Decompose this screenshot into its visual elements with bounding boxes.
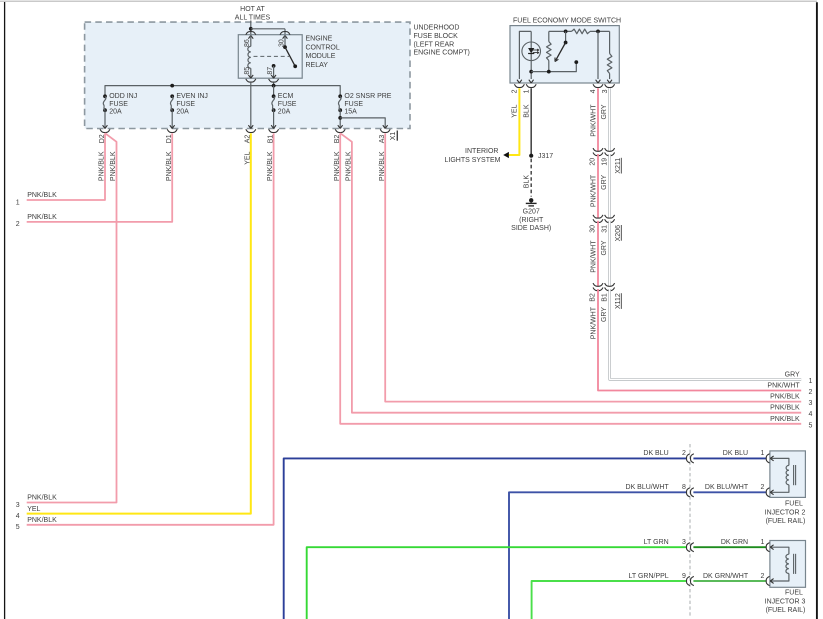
label 3	[16, 502, 20, 509]
svg-text:DK GRN/WHT: DK GRN/WHT	[703, 573, 749, 580]
svg-text:(LEFT REAR: (LEFT REAR	[414, 41, 455, 48]
label PNK/BLK wire3	[27, 495, 57, 502]
pin label 87	[267, 67, 274, 75]
pin label A2	[245, 135, 252, 144]
resistor R1 (switch pullup)	[547, 31, 552, 71]
connector X211 pin20	[593, 148, 603, 156]
relay contact 87 stub	[272, 64, 276, 78]
fuel economy mode switch box	[510, 26, 619, 83]
node feed junction	[249, 27, 253, 31]
label 4	[16, 513, 20, 520]
svg-text:FUSE: FUSE	[278, 101, 297, 108]
svg-text:B2: B2	[590, 293, 597, 302]
label right 3	[809, 400, 813, 407]
fuse ODD INJ 20A	[103, 94, 107, 128]
svg-text:3: 3	[682, 539, 686, 546]
injector3 pin1 terminal	[766, 543, 773, 552]
svg-text:ECM: ECM	[278, 93, 294, 100]
svg-text:DK BLU: DK BLU	[723, 450, 748, 457]
svg-text:INTERIOR: INTERIOR	[465, 148, 498, 155]
wire feed to pin30	[251, 29, 285, 35]
svg-text:X211: X211	[615, 158, 622, 174]
svg-text:J317: J317	[538, 153, 553, 160]
wire fuse bus	[105, 86, 340, 97]
label ECM FUSE 20A	[278, 93, 297, 116]
wire YEL switch pin2	[509, 88, 520, 155]
wire label PNK/BLK (D2 branch)	[110, 151, 117, 181]
node bus ecm	[272, 84, 276, 88]
svg-text:2: 2	[16, 221, 20, 228]
svg-text:1: 1	[523, 89, 530, 93]
svg-text:PNK/WHT: PNK/WHT	[590, 306, 597, 339]
connector dashed line (injector harness)	[689, 444, 691, 617]
label DK BLU/WHT left	[626, 484, 670, 491]
label GRY right1	[785, 371, 800, 378]
pin label 2 row4	[761, 573, 765, 580]
svg-text:4: 4	[590, 89, 597, 93]
pin label 4	[590, 89, 597, 93]
pin label 2	[512, 89, 519, 93]
wire label GRY seg2	[601, 174, 608, 189]
svg-text:FUSE: FUSE	[344, 101, 363, 108]
relay pin 87 terminal	[269, 75, 279, 82]
LED arrows	[533, 49, 539, 54]
pin label X1	[390, 132, 397, 141]
svg-text:PNK/BLK: PNK/BLK	[110, 151, 117, 181]
svg-text:LT GRN: LT GRN	[644, 539, 669, 546]
relay pin 85 terminal	[246, 75, 256, 82]
label DK GRN/WHT right	[703, 573, 749, 580]
svg-text:PNK/BLK: PNK/BLK	[27, 214, 57, 221]
connector X206 pin31	[605, 215, 615, 223]
svg-text:X112: X112	[615, 293, 622, 309]
fuse block pin A3	[380, 125, 390, 132]
connector X112 pinB2	[593, 283, 603, 291]
label right 4	[809, 411, 813, 418]
wire label PNK/BLK (A3)	[379, 151, 386, 181]
pin label 3	[602, 89, 609, 93]
wire sw pin2 riser	[519, 31, 531, 79]
svg-text:PNK/BLK: PNK/BLK	[334, 151, 341, 181]
wire DK BLU (left segment)	[284, 458, 687, 619]
relay switch blade	[285, 47, 297, 68]
svg-text:ODD INJ: ODD INJ	[109, 93, 137, 100]
svg-text:PNK/BLK: PNK/BLK	[770, 405, 800, 412]
page top edge line	[0, 0, 817, 2]
wire label PNK/BLK (D2 vertical)	[99, 151, 106, 181]
interior lights arrow	[503, 152, 509, 158]
svg-text:PNK/BLK: PNK/BLK	[770, 416, 800, 423]
wire sw top rail	[549, 30, 610, 32]
page right border	[816, 2, 818, 619]
wire led line	[530, 31, 532, 79]
wire label PNK/WHT seg3	[590, 240, 597, 273]
svg-text:FUEL: FUEL	[785, 590, 803, 597]
connector X1 marker	[396, 131, 398, 141]
wire PNK/WHT to right edge 2	[598, 289, 801, 391]
pin label 3 row3	[682, 539, 686, 546]
wire relay87 to bus	[273, 83, 275, 86]
switch pin 1 terminal	[526, 80, 536, 88]
label PNK/BLK right3	[770, 394, 800, 401]
node resistor bottom	[547, 70, 551, 74]
ground G207	[526, 198, 537, 206]
wire BLK switch pin1	[530, 88, 532, 156]
svg-text:PNK/BLK: PNK/BLK	[27, 517, 57, 524]
label HOT AT ALL TIMES	[235, 6, 271, 21]
pin label 1	[523, 89, 530, 93]
svg-text:PNK/BLK: PNK/BLK	[27, 495, 57, 502]
svg-text:20A: 20A	[278, 109, 291, 116]
svg-text:GRY: GRY	[601, 240, 608, 255]
svg-text:20A: 20A	[176, 109, 189, 116]
LED lamp circle	[522, 42, 541, 61]
svg-text:3: 3	[809, 400, 813, 407]
svg-text:ENGINE COMPT): ENGINE COMPT)	[414, 50, 470, 57]
svg-text:1: 1	[809, 378, 813, 385]
svg-text:CONTROL: CONTROL	[306, 45, 340, 52]
wire PNK/BLK B2 to right edge 5	[340, 133, 801, 424]
injector3 pin2 terminal	[766, 576, 773, 585]
svg-text:(FUEL RAIL): (FUEL RAIL)	[766, 518, 806, 525]
svg-text:PNK/BLK: PNK/BLK	[346, 151, 353, 181]
svg-text:INJECTOR 3: INJECTOR 3	[765, 598, 806, 605]
connector pins row1	[687, 454, 694, 463]
svg-text:SIDE DASH): SIDE DASH)	[511, 225, 551, 232]
svg-text:2: 2	[761, 484, 765, 491]
label right 5	[809, 422, 813, 429]
wire label GRY seg3	[601, 240, 608, 255]
fuel injector 3	[770, 541, 806, 588]
LED triangle	[528, 48, 534, 54]
relay switch common	[283, 35, 287, 49]
pin label 8 row2	[682, 484, 686, 491]
switch pin 4 terminal	[593, 80, 603, 88]
switch blade	[555, 31, 567, 61]
label FUEL INJECTOR 3 (FUEL RAIL)	[765, 590, 806, 614]
svg-text:BLK: BLK	[524, 104, 531, 118]
wire PNK/WHT switch pin4 seg1	[597, 88, 599, 151]
label YEL wire4	[27, 506, 40, 513]
connector X206 pin30	[593, 215, 603, 223]
resistor R2 (horizontal)	[572, 29, 591, 34]
svg-text:2: 2	[761, 573, 765, 580]
node J317	[529, 154, 533, 158]
pin label B2	[334, 135, 341, 144]
svg-text:GRY: GRY	[601, 307, 608, 322]
label PNK/BLK wire5	[27, 517, 57, 524]
svg-text:5: 5	[16, 524, 20, 531]
svg-text:HOT AT: HOT AT	[240, 6, 265, 13]
label X211	[615, 158, 622, 174]
label DK GRN right	[721, 539, 748, 546]
label J317	[538, 153, 553, 160]
wire label BLK (dashed)	[524, 175, 531, 189]
label UNDERHOOD FUSE BLOCK	[414, 25, 470, 57]
wire label PNK/BLK (D1)	[166, 151, 173, 181]
label right 2	[809, 389, 813, 396]
wire label PNK/BLK (B1)	[267, 151, 274, 181]
relay pin 86 terminal	[246, 32, 256, 39]
relay coil	[248, 35, 251, 78]
pin label 2 row2	[761, 484, 765, 491]
wire PNK/BLK D1 to left edge 2	[27, 133, 173, 222]
label DK BLU left	[643, 450, 668, 457]
pin label 9 row4	[682, 573, 686, 580]
svg-text:ENGINE: ENGINE	[306, 36, 333, 43]
svg-text:20: 20	[590, 158, 597, 166]
fuse block pin D2	[100, 125, 110, 132]
svg-text:1: 1	[761, 539, 765, 546]
wire label PNK/BLK (B2)	[334, 151, 341, 181]
wire pin4 drop	[597, 31, 599, 79]
connector X211 pin19	[605, 148, 615, 156]
label 5	[16, 524, 20, 531]
label PNK/BLK right4	[770, 405, 800, 412]
pin label 20	[590, 158, 597, 166]
wire GRY seg2	[608, 154, 611, 218]
fuse block pin D1	[167, 125, 177, 132]
svg-text:87: 87	[267, 67, 274, 75]
pin label B1	[267, 135, 274, 144]
label PNK/BLK right5	[770, 416, 800, 423]
pin label 31	[601, 225, 608, 233]
svg-text:YEL: YEL	[244, 151, 251, 164]
pin label 1 row3	[761, 539, 765, 546]
svg-text:PNK/WHT: PNK/WHT	[590, 174, 597, 207]
svg-text:ALL TIMES: ALL TIMES	[235, 15, 271, 22]
wire label PNK/WHT seg2	[590, 174, 597, 207]
injector2 pin2 terminal	[766, 488, 773, 497]
pin label D2	[99, 134, 106, 143]
svg-text:3: 3	[602, 89, 609, 93]
fuse O2 SNSR PRE 15A	[338, 94, 342, 128]
svg-text:EVEN INJ: EVEN INJ	[176, 93, 208, 100]
label PNK/WHT right2	[767, 383, 800, 390]
svg-text:20A: 20A	[109, 109, 122, 116]
svg-text:FUEL ECONOMY MODE SWITCH: FUEL ECONOMY MODE SWITCH	[513, 17, 621, 24]
svg-text:UNDERHOOD: UNDERHOOD	[414, 25, 460, 32]
node bus even	[170, 84, 174, 88]
svg-text:PNK/WHT: PNK/WHT	[767, 383, 800, 390]
wire label PNK/WHT seg1	[590, 104, 597, 137]
fuse block pin B1	[269, 125, 279, 132]
wire DK GRN (right segment)	[693, 546, 766, 548]
pin label B2	[590, 293, 597, 302]
wire PNK/BLK B1 to left edge 5	[27, 133, 274, 525]
wire label BLK	[524, 104, 531, 118]
svg-text:PNK/WHT: PNK/WHT	[590, 104, 597, 137]
wire PNK/BLK B2 branch to right edge 4	[340, 133, 801, 413]
svg-text:FUSE: FUSE	[176, 101, 195, 108]
fuse ECM 20A	[272, 86, 276, 129]
wire LT GRN/PPL (left segment)	[532, 581, 687, 619]
label X206	[615, 225, 622, 241]
svg-text:(FUEL RAIL): (FUEL RAIL)	[766, 607, 806, 614]
wire PNK/BLK A3 to right edge 3	[385, 133, 801, 401]
underhood fuse block box	[85, 22, 410, 128]
connector X112 pinB1	[605, 283, 615, 291]
svg-text:DK BLU/WHT: DK BLU/WHT	[626, 484, 670, 491]
node o2 branch	[338, 116, 342, 120]
switch pin 2 terminal	[514, 80, 524, 88]
label G207 (RIGHT SIDE DASH)	[511, 208, 551, 232]
label DK BLU right	[723, 450, 748, 457]
op relay box (engine control module relay)	[238, 35, 302, 78]
label LT GRN/PPL left	[628, 573, 668, 580]
svg-text:PNK/WHT: PNK/WHT	[590, 240, 597, 273]
wire PNK/BLK D2 to left edge 1	[27, 133, 105, 200]
svg-text:1: 1	[761, 450, 765, 457]
switch pin 3 terminal	[605, 80, 615, 88]
wire label GRY seg4	[601, 307, 608, 322]
svg-text:DK BLU/WHT: DK BLU/WHT	[705, 484, 749, 491]
svg-text:4: 4	[809, 411, 813, 418]
pin label 30	[278, 39, 285, 47]
wire GRY to right edge 1	[610, 289, 802, 379]
label O2 SNSR PRE FUSE 15A	[344, 93, 391, 116]
node pin4 tap	[596, 30, 600, 34]
wire YEL A2 to left edge 4	[27, 133, 251, 513]
svg-text:2: 2	[682, 450, 686, 457]
svg-text:INJECTOR 2: INJECTOR 2	[765, 509, 806, 516]
svg-text:MODULE: MODULE	[306, 53, 336, 60]
pin label D1	[166, 134, 173, 143]
svg-text:PNK/BLK: PNK/BLK	[166, 151, 173, 181]
wire DK BLU/WHT (left segment)	[509, 492, 686, 619]
svg-text:O2 SNSR PRE: O2 SNSR PRE	[344, 93, 391, 100]
svg-text:8: 8	[682, 484, 686, 491]
label DK BLU/WHT right	[705, 484, 749, 491]
wire label GRY seg1	[601, 104, 608, 119]
node contact	[574, 60, 578, 64]
resistor R3 (right)	[607, 31, 612, 79]
svg-text:DK GRN: DK GRN	[721, 539, 748, 546]
svg-text:GRY: GRY	[601, 174, 608, 189]
fuse block pin B2	[335, 125, 345, 132]
svg-text:2: 2	[809, 389, 813, 396]
svg-text:X1: X1	[390, 132, 397, 141]
svg-text:X206: X206	[615, 225, 622, 241]
wire o2 fuse to A3	[340, 118, 385, 129]
label FUEL INJECTOR 2 (FUEL RAIL)	[765, 500, 806, 525]
svg-text:4: 4	[16, 513, 20, 520]
relay linkage dashed	[254, 55, 290, 57]
svg-text:86: 86	[244, 39, 251, 47]
wire DK BLU (right segment)	[693, 457, 766, 459]
wire DK BLU/WHT (right segment)	[693, 491, 766, 493]
svg-text:2: 2	[512, 89, 519, 93]
label PNK/BLK wire2	[27, 214, 57, 221]
svg-text:PNK/BLK: PNK/BLK	[27, 192, 57, 199]
svg-text:YEL: YEL	[512, 104, 519, 117]
svg-text:DK BLU: DK BLU	[643, 450, 668, 457]
wire battery feed stub	[250, 21, 252, 35]
svg-text:RELAY: RELAY	[306, 62, 329, 69]
svg-text:BLK: BLK	[524, 175, 531, 189]
wire GRY seg3	[608, 221, 611, 286]
label LT GRN left	[644, 539, 669, 546]
wire BLK dashed to ground	[530, 159, 532, 197]
svg-text:30: 30	[590, 225, 597, 233]
label EVEN INJ FUSE 20A	[176, 93, 208, 116]
pin label 86	[244, 39, 251, 47]
svg-text:5: 5	[809, 422, 813, 429]
wire DK GRN/WHT (right segment)	[693, 580, 766, 582]
svg-text:PNK/BLK: PNK/BLK	[267, 151, 274, 181]
pin label 30	[590, 225, 597, 233]
svg-text:15A: 15A	[344, 109, 357, 116]
wire sw bottom rail	[531, 62, 576, 72]
svg-text:85: 85	[244, 67, 251, 75]
fuel injector 2	[770, 451, 806, 498]
wire PNK/BLK D2 branch to left edge 3	[27, 133, 117, 502]
svg-text:31: 31	[601, 225, 608, 233]
svg-text:YEL: YEL	[27, 506, 40, 513]
connector pins row3	[687, 543, 694, 552]
svg-text:GRY: GRY	[785, 371, 800, 378]
pin label 1 row1	[761, 450, 765, 457]
wire GRY switch pin3 seg1	[608, 88, 611, 151]
pin label 85	[244, 67, 251, 75]
svg-text:PNK/BLK: PNK/BLK	[379, 151, 386, 181]
wire label YEL (switch)	[512, 104, 519, 117]
wire label PNK/WHT seg4	[590, 306, 597, 339]
svg-text:19: 19	[601, 158, 608, 166]
pin label 19	[601, 158, 608, 166]
node led bottom	[529, 70, 533, 74]
svg-text:FUSE: FUSE	[109, 101, 128, 108]
connector pins row4	[687, 576, 694, 585]
label 1	[16, 199, 20, 206]
label INTERIOR LIGHTS SYSTEM	[444, 148, 500, 164]
label 2	[16, 221, 20, 228]
svg-text:LIGHTS SYSTEM: LIGHTS SYSTEM	[444, 157, 500, 164]
pin label B1	[601, 293, 608, 302]
label right 1	[809, 378, 813, 385]
label ODD INJ FUSE 20A	[109, 93, 137, 116]
svg-text:3: 3	[16, 502, 20, 509]
svg-text:PNK/BLK: PNK/BLK	[99, 151, 106, 181]
wire label YEL (A2)	[244, 151, 251, 164]
wire label PNK/BLK (B2 branch)	[346, 151, 353, 181]
pin label A3	[379, 135, 386, 144]
fuse EVEN INJ 20A	[170, 94, 174, 128]
svg-text:9: 9	[682, 573, 686, 580]
injector2 pin1 terminal	[766, 454, 773, 463]
svg-text:G207: G207	[523, 208, 540, 215]
svg-text:FUSE BLOCK: FUSE BLOCK	[414, 33, 459, 40]
svg-text:LT GRN/PPL: LT GRN/PPL	[628, 573, 668, 580]
connector pins row2	[687, 488, 694, 497]
wire LT GRN (left segment)	[307, 547, 687, 619]
pin label 2 row1	[682, 450, 686, 457]
svg-text:FUEL: FUEL	[785, 500, 803, 507]
page left border	[4, 2, 6, 619]
svg-text:(RIGHT: (RIGHT	[519, 217, 544, 224]
label FUEL ECONOMY MODE SWITCH	[513, 17, 621, 24]
relay pin 30 terminal	[280, 32, 290, 39]
svg-text:GRY: GRY	[601, 104, 608, 119]
svg-text:PNK/BLK: PNK/BLK	[770, 394, 800, 401]
svg-text:B1: B1	[601, 293, 608, 302]
label ENGINE CONTROL MODULE RELAY	[306, 36, 340, 69]
svg-text:1: 1	[16, 199, 20, 206]
wire PNK/WHT seg2	[597, 154, 599, 218]
fuse block pin A2	[246, 125, 256, 132]
label X112	[615, 293, 622, 309]
label PNK/BLK wire1	[27, 192, 57, 199]
